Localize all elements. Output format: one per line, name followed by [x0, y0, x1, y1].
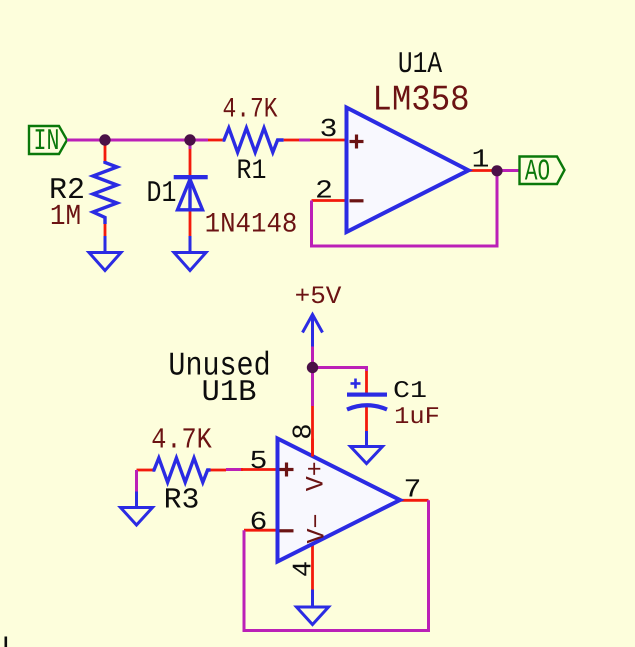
svg-text:U1B: U1B	[201, 376, 256, 410]
svg-text:7: 7	[404, 475, 422, 505]
resistor R2	[93, 161, 117, 224]
label R3	[164, 484, 200, 517]
svg-text:1N4148: 1N4148	[205, 210, 298, 241]
U1B minus mark	[280, 529, 294, 532]
U1B V+ pin8 stub inside	[311, 439, 314, 457]
ground for C1	[351, 431, 383, 464]
pin 1 number	[472, 145, 490, 175]
op-amp U1B pin4	[311, 543, 314, 590]
ground for R3	[121, 492, 153, 526]
pin name V- rotated	[303, 513, 332, 543]
label 1M	[50, 200, 81, 233]
label Unused	[168, 348, 270, 385]
svg-text:V+: V+	[302, 461, 331, 491]
wire pin1 to AO	[497, 169, 520, 172]
port AO	[520, 156, 565, 190]
resistor R2 pins	[104, 140, 107, 161]
svg-text:AO: AO	[525, 156, 550, 190]
svg-text:R3: R3	[164, 484, 200, 517]
svg-text:D1: D1	[147, 177, 177, 211]
capacitor C1	[347, 379, 387, 410]
svg-text:IN: IN	[34, 125, 60, 159]
svg-text:V−: V−	[303, 513, 332, 543]
wire junction to C1	[313, 368, 367, 372]
pin 4 number rotated	[290, 561, 320, 577]
power +5V	[295, 282, 342, 347]
svg-text:+5V: +5V	[295, 282, 342, 311]
op-amp U1A pin1	[469, 169, 495, 172]
capacitor C1 pins	[365, 371, 368, 393]
svg-text:8: 8	[290, 423, 320, 439]
svg-text:4.7K: 4.7K	[151, 424, 212, 457]
svg-text:2: 2	[315, 176, 333, 206]
resistor R3	[153, 458, 211, 482]
U1B plus mark	[280, 463, 294, 477]
junction node at D1	[184, 134, 195, 145]
svg-text:3: 3	[320, 114, 338, 144]
wire R3 left to ground	[135, 470, 138, 492]
label 1N4148	[205, 210, 298, 241]
junction node at R2	[99, 134, 110, 145]
junction node output	[491, 165, 502, 176]
pin 7 number	[404, 475, 422, 505]
label R2	[49, 174, 85, 208]
label 4.7K R1	[222, 95, 277, 126]
cursor tick	[5, 637, 8, 647]
pin 5 number	[250, 446, 268, 476]
pin 8 number rotated	[290, 423, 320, 439]
svg-text:5: 5	[250, 446, 268, 476]
U1A plus mark	[350, 135, 364, 149]
diode D1 pins	[189, 149, 192, 175]
label R1	[237, 156, 267, 187]
pin name V+ rotated	[302, 461, 331, 491]
svg-text:1: 1	[472, 145, 490, 175]
svg-text:LM358: LM358	[372, 80, 469, 121]
ground for pin4	[297, 590, 329, 625]
label LM358	[372, 80, 469, 121]
port IN	[29, 125, 67, 159]
pin 2 number	[315, 176, 333, 206]
junction node +5V	[307, 362, 318, 373]
op-amp U1A pin3	[310, 139, 347, 142]
label D1	[147, 177, 177, 211]
label 4.7K R3	[151, 424, 212, 457]
op-amp U1B pin8	[311, 406, 314, 457]
wire +5V to junction	[311, 347, 314, 407]
label 1uF	[394, 404, 440, 431]
op-amp U1B	[278, 439, 401, 562]
svg-text:C1: C1	[393, 378, 427, 405]
wire R3 to pin5	[226, 468, 243, 471]
ground for R2	[89, 236, 121, 271]
diode D1	[174, 175, 208, 210]
U1A minus mark	[350, 199, 364, 202]
resistor R1	[223, 128, 284, 152]
pin 6 number	[250, 507, 268, 537]
wire R1 to pin3	[299, 139, 310, 142]
op-amp U1A	[347, 108, 469, 233]
op-amp U1B pin7	[400, 499, 429, 502]
label U1B	[201, 376, 256, 410]
svg-text:4: 4	[290, 561, 320, 577]
feedback wire U1A	[312, 171, 498, 246]
svg-text:U1A: U1A	[398, 48, 442, 82]
resistor R1 pins	[208, 139, 223, 142]
label C1	[393, 378, 427, 405]
label U1A	[398, 48, 442, 82]
svg-text:1uF: 1uF	[394, 404, 440, 431]
svg-text:1M: 1M	[50, 200, 81, 233]
wire IN to R1	[67, 139, 208, 142]
feedback wire U1B	[244, 500, 429, 630]
op-amp U1B pin6	[244, 529, 278, 532]
ground for D1	[174, 236, 206, 271]
resistor R3 pins	[137, 469, 153, 472]
op-amp U1A pin2	[312, 199, 347, 202]
svg-text:R1: R1	[237, 156, 267, 187]
pin 3 number	[320, 114, 338, 144]
svg-text:4.7K: 4.7K	[222, 95, 277, 126]
svg-text:6: 6	[250, 507, 268, 537]
op-amp U1B pin5	[241, 468, 278, 471]
